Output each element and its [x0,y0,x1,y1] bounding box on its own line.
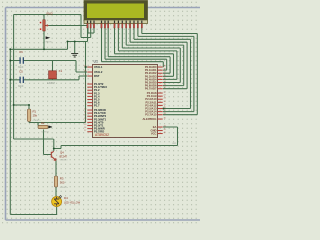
svg-text:40: 40 [164,132,166,134]
svg-text:26: 26 [164,107,166,109]
svg-text:<TEXT>: <TEXT> [41,130,50,133]
svg-text:C6: C6 [19,50,23,54]
svg-text:17: 17 [84,130,86,132]
svg-text:Q4: Q4 [60,151,64,155]
svg-text:9: 9 [85,75,86,77]
svg-text:4: 4 [85,92,86,94]
svg-text:1: 1 [85,83,86,85]
svg-text:ALE/PROG: ALE/PROG [142,117,156,121]
svg-text:R2: R2 [41,121,45,125]
svg-text:10: 10 [84,109,86,111]
svg-text:18: 18 [84,71,86,73]
svg-text:P3.7/RD: P3.7/RD [94,130,104,134]
svg-text:12: 12 [84,115,86,117]
svg-text:RST: RST [94,74,100,78]
svg-text:7: 7 [85,101,86,103]
svg-text:39: 39 [164,66,166,68]
svg-text:27: 27 [164,110,166,112]
svg-text:28: 28 [164,113,166,115]
svg-text:23: 23 [164,98,166,100]
svg-text:P2.7/A15: P2.7/A15 [145,113,157,117]
svg-text:<TEXT>: <TEXT> [44,41,53,44]
svg-text:35: 35 [164,78,166,80]
svg-text:BC547: BC547 [60,155,68,158]
svg-text:22: 22 [164,95,166,97]
svg-text:2: 2 [85,86,86,88]
svg-text:21: 21 [164,92,166,94]
svg-text:12MHZ: 12MHZ [47,82,55,85]
svg-text:6: 6 [85,98,86,100]
svg-text:U1: U1 [94,60,99,64]
svg-text:<TEXT>: <TEXT> [60,186,69,189]
svg-text:16: 16 [84,127,86,129]
svg-text:31: 31 [164,126,166,128]
svg-text:11: 11 [84,112,86,114]
svg-text:13: 13 [84,118,86,120]
svg-text:P0.7/AD7: P0.7/AD7 [145,87,157,91]
svg-text:RV2: RV2 [47,12,53,16]
svg-text:P1.7: P1.7 [94,104,100,108]
svg-text:15: 15 [84,124,86,126]
svg-text:D4: D4 [64,196,68,200]
svg-text:20: 20 [164,129,166,131]
svg-text:300: 300 [60,181,65,185]
svg-text:30: 30 [164,118,166,120]
svg-text:C5: C5 [19,69,23,73]
svg-text:33: 33 [164,84,166,86]
svg-text:37: 37 [164,72,166,74]
svg-text:EA: EA [153,125,157,129]
svg-text:X1: X1 [59,69,63,73]
svg-text:10k: 10k [33,114,38,118]
svg-text:LED-YELLOW: LED-YELLOW [64,202,81,205]
svg-text:XTAL1: XTAL1 [94,65,103,69]
svg-text:XTAL2: XTAL2 [94,70,103,74]
svg-text:19: 19 [84,66,86,68]
svg-text:34: 34 [164,81,166,83]
svg-text:5: 5 [85,95,86,97]
svg-text:38: 38 [164,69,166,71]
svg-text:3: 3 [85,89,86,91]
svg-text:32: 32 [164,87,166,89]
svg-text:25: 25 [164,104,166,106]
svg-text:30pF: 30pF [18,85,24,88]
svg-text:VCC: VCC [151,132,157,136]
svg-text:24: 24 [164,101,166,103]
svg-text:36: 36 [164,75,166,77]
svg-text:<TEXT>: <TEXT> [60,159,69,162]
svg-text:14: 14 [84,121,86,123]
svg-text:8: 8 [85,104,86,106]
